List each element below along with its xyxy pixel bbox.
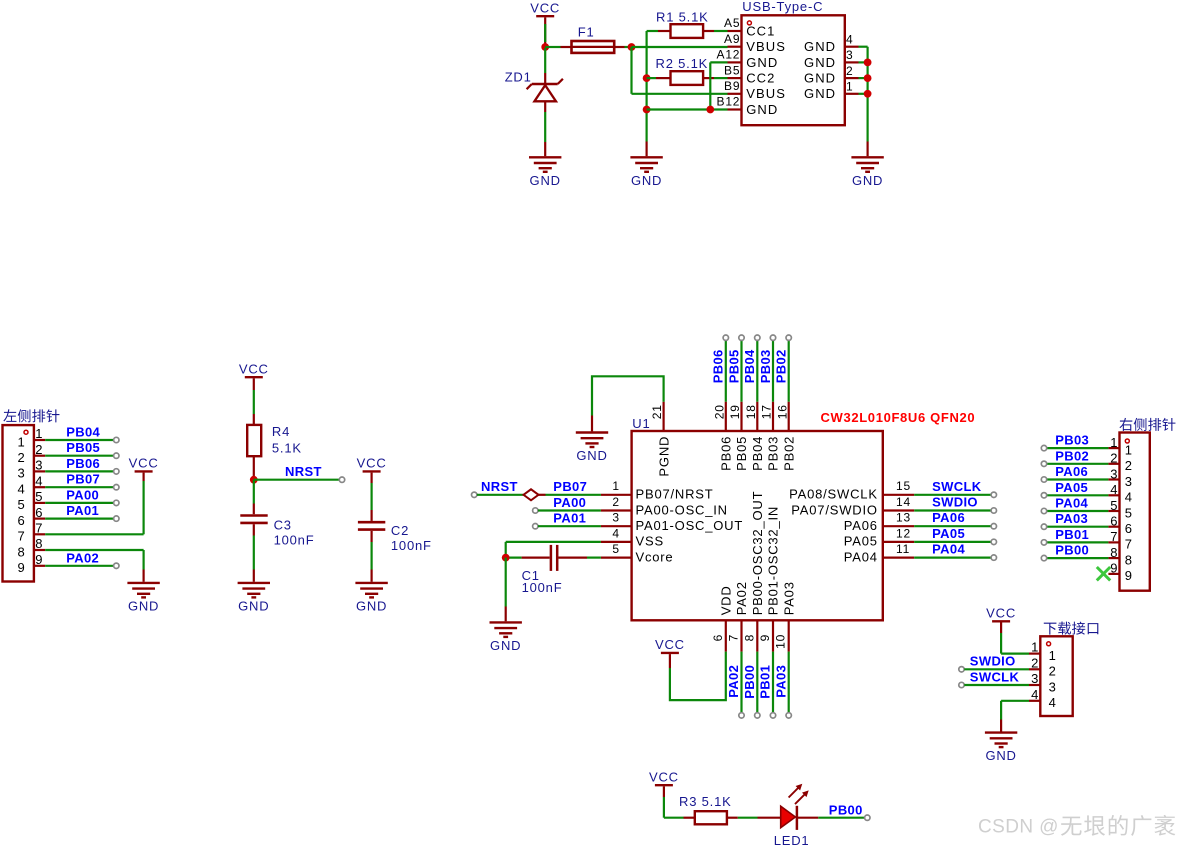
svg-text:3: 3 [1031,671,1039,686]
svg-text:21: 21 [650,404,664,419]
ground GND (PGND) [576,431,608,433]
svg-text:4: 4 [1110,482,1118,497]
power flag VCC (left header) [135,470,153,472]
svg-text:7: 7 [1125,537,1133,552]
U1 bottom pin 10 wire [788,620,790,651]
node R2 junction [643,74,651,82]
svg-text:7: 7 [1110,529,1118,544]
svg-text:PB00: PB00 [1055,543,1089,558]
power flag VCC (input protection) [536,15,554,17]
svg-text:SWCLK: SWCLK [970,669,1020,684]
svg-text:PA03: PA03 [1055,511,1088,526]
svg-text:11: 11 [896,542,910,556]
svg-text:GND: GND [804,71,836,86]
wire / net label PB07 [45,486,113,488]
wire / net label PA00 [533,508,538,513]
svg-text:GND: GND [804,55,836,70]
wire C1 node to GND [505,558,507,607]
wire pin8 to GND [45,549,143,551]
node VBUS junction [628,43,636,51]
svg-text:GND: GND [238,598,269,613]
U1 top pin 16 wire / net label PB02 [788,402,790,431]
wire zener branch [544,48,546,73]
wire / net label SWCLK (U1 right) [914,494,991,496]
download header pin1 indicator [1047,642,1051,646]
wire A12 to B12 (GND pins) [709,62,711,109]
svg-text:R4: R4 [272,424,290,439]
svg-text:2: 2 [1049,664,1057,679]
svg-text:GND: GND [852,173,883,188]
svg-text:GND: GND [804,39,836,54]
svg-text:PB03: PB03 [758,349,773,383]
svg-text:7: 7 [35,521,43,536]
svg-text:3: 3 [1110,466,1118,481]
svg-text:C2: C2 [391,523,409,538]
wire NRST node to C3 [253,480,255,504]
wire junction to fuse F1 [545,46,560,48]
svg-text:PB02: PB02 [1055,448,1089,463]
wire VCC to R4 [253,378,255,390]
svg-text:15: 15 [896,479,911,493]
svg-text:USB-Type-C: USB-Type-C [742,0,823,14]
pin 1 indicator [747,21,751,25]
svg-text:F1: F1 [578,24,595,39]
power flag VCC (VDD) [661,652,679,654]
wire / net label PB06 [45,470,113,472]
svg-text:1: 1 [1110,435,1118,450]
svg-text:1: 1 [1031,640,1039,655]
svg-text:Vcore: Vcore [636,549,674,564]
svg-text:20: 20 [712,404,726,419]
wire / net label PA05 (U1 right) [914,541,991,543]
node B12 junction right [706,106,714,114]
wire VSS down to C1 node [506,541,601,543]
USB right pin stubs and wires [845,46,859,48]
ground GND (C1) [490,621,522,623]
svg-text:100nF: 100nF [391,538,432,553]
wire F1 to VBUS junction [614,46,624,48]
svg-text:19: 19 [728,404,742,419]
svg-text:PB05: PB05 [66,440,100,455]
ground GND (left header) [127,582,159,584]
ground GND (C2) [355,582,387,584]
svg-text:2: 2 [17,450,25,465]
svg-text:LED1: LED1 [774,833,810,848]
svg-text:6: 6 [711,634,725,641]
USB left pin stubs A5 A9 A12 B5 B9 B12 [728,30,742,32]
svg-text:1: 1 [612,479,619,493]
svg-text:PB01: PB01 [758,665,773,699]
svg-text:GND: GND [804,86,836,101]
svg-text:4: 4 [1125,490,1133,505]
wire / net label PB01 (right header) [1047,541,1109,543]
svg-text:R3 5.1K: R3 5.1K [679,794,732,809]
wire download pin4 to GND [1001,700,1029,702]
svg-text:PA01: PA01 [553,511,586,526]
wire / net label PA04 (U1 right) [914,556,991,558]
wire / net label SWDIO (U1 right) [914,509,991,511]
wire / net label PB04 [45,439,113,441]
svg-text:B12: B12 [717,95,741,109]
svg-text:GND: GND [356,598,387,613]
svg-text:PB04: PB04 [66,425,100,440]
svg-text:GND: GND [490,638,521,653]
wire VBUS junction to pin A9 [632,46,728,48]
svg-text:PB06: PB06 [711,349,726,383]
svg-text:PB01-OSC32_IN: PB01-OSC32_IN [766,506,781,615]
svg-text:PA06: PA06 [844,518,878,533]
wire / net label PA06 (right header) [1047,478,1109,480]
svg-text:6: 6 [1125,521,1133,536]
svg-text:2: 2 [35,442,43,457]
svg-text:CSDN @: CSDN @ [978,817,1059,838]
node GND bus pin1 [864,90,872,98]
svg-text:PA03: PA03 [773,665,788,698]
U1 bottom pin 9 wire [772,620,774,651]
svg-text:GND: GND [128,598,159,613]
svg-text:6: 6 [35,505,43,520]
svg-text:5: 5 [35,489,43,504]
wire / net label PA06 (U1 right) [914,525,991,527]
svg-text:2: 2 [1110,451,1118,466]
svg-text:A9: A9 [724,32,740,46]
svg-text:4: 4 [612,526,619,540]
svg-text:4: 4 [1049,695,1057,710]
wire PGND pin21 to GND [662,402,664,431]
svg-text:9: 9 [17,560,25,575]
wire pin7 to VCC [45,533,143,535]
svg-text:NRST: NRST [285,464,322,479]
svg-text:PB07/NRST: PB07/NRST [636,487,714,502]
connector left header body [3,425,34,581]
svg-text:PB02: PB02 [781,436,796,471]
wire VDD to VCC [670,652,726,701]
svg-text:8: 8 [17,544,25,559]
resistor R2 [647,77,656,79]
svg-text:PA04: PA04 [844,549,878,564]
svg-text:2: 2 [612,495,619,509]
resistor R4 [247,425,261,456]
node VCC junction at F1/ZD1 [541,43,549,51]
svg-text:1: 1 [17,434,25,449]
svg-text:5: 5 [1125,505,1133,520]
svg-text:100nF: 100nF [522,580,563,595]
svg-text:PA02: PA02 [66,550,99,565]
ground GND (USB shell) [851,156,883,158]
svg-text:3: 3 [1049,679,1057,694]
svg-text:GND: GND [746,102,778,117]
svg-text:PB07: PB07 [66,472,100,487]
wire C3 to GND [253,524,255,535]
svg-text:PB05: PB05 [726,349,741,383]
wire / net label PB05 [45,455,113,457]
wire / net label NRST [254,479,339,481]
svg-text:8: 8 [1110,545,1118,560]
ground GND (under ZD1) [529,156,561,158]
svg-text:SWDIO: SWDIO [932,495,978,510]
svg-text:8: 8 [742,634,756,641]
svg-text:PA02: PA02 [726,665,741,698]
svg-text:PA05: PA05 [932,526,965,541]
svg-text:7: 7 [727,634,741,641]
capacitor C3 [240,514,267,517]
left header title (Chinese) [3,409,59,422]
wire / net label PB00 (LED) [797,817,818,819]
power flag VCC (C2) [363,470,381,472]
power flag VCC (LED) [655,784,673,786]
wire / net label PA01 [45,517,113,519]
wire VCC to C2 [371,473,373,483]
wire / net label PA05 (right header) [1047,494,1109,496]
wire / net label PB03 (right header) [1047,447,1109,449]
zener diode ZD1 [532,83,558,85]
svg-text:8: 8 [35,536,43,551]
node B12 junction left [643,106,651,114]
svg-text:PB06: PB06 [66,456,100,471]
svg-text:3: 3 [612,511,619,525]
resistor R1 [647,30,658,32]
svg-text:VSS: VSS [636,534,664,549]
svg-text:1: 1 [1125,442,1133,457]
no-connect X on right header pin 9 [1097,567,1110,580]
svg-text:PA06: PA06 [1055,464,1088,479]
svg-text:9: 9 [1110,561,1118,576]
node NRST junction [250,476,258,484]
power flag VCC (download) [992,620,1010,622]
svg-text:VCC: VCC [530,0,560,15]
svg-text:PA01: PA01 [66,503,99,518]
svg-text:C3: C3 [274,517,292,532]
svg-text:3: 3 [1125,474,1133,489]
svg-text:VBUS: VBUS [746,39,786,54]
svg-text:VCC: VCC [649,769,679,784]
connector right header body [1120,433,1150,591]
U1 bottom pin 6 wire [725,620,727,651]
svg-text:100nF: 100nF [274,533,315,548]
svg-text:VCC: VCC [357,456,387,471]
resistor R3 [695,811,727,824]
net flag NRST diamond [472,492,477,497]
svg-text:GND: GND [631,173,662,188]
svg-text:PA07/SWDIO: PA07/SWDIO [791,502,878,517]
wire / net label SWCLK (download) [959,682,964,687]
U1 bottom pin 8 wire [756,620,758,651]
wire / net label PB00 (right header) [1047,557,1109,559]
U1 bottom pin 7 wire [740,620,742,651]
wire right GND bus [866,47,868,142]
svg-text:4: 4 [846,32,853,46]
svg-text:PA04: PA04 [932,542,965,557]
right header pin stubs [1108,447,1119,449]
svg-text:PB06: PB06 [719,436,734,471]
svg-text:PB03: PB03 [766,436,781,471]
svg-text:10: 10 [774,634,788,649]
diode LED1 [781,806,796,828]
svg-text:PB00-OSC32_OUT: PB00-OSC32_OUT [750,491,765,616]
svg-text:3: 3 [17,466,25,481]
left header pin1 indicator [24,430,28,434]
svg-text:PB05: PB05 [734,436,749,471]
right header pin1 indicator [1125,439,1129,443]
svg-text:3: 3 [846,48,853,62]
U1 top pin 18 wire / net label PB04 [756,402,758,431]
wire / net label PB02 (right header) [1047,463,1109,465]
svg-text:6: 6 [1110,514,1118,529]
svg-text:2: 2 [1031,655,1039,670]
wire / net label PA04 (right header) [1047,510,1109,512]
svg-text:PA03: PA03 [781,581,796,615]
left header pin stubs [34,439,45,441]
U1 top pin 19 wire / net label PB05 [740,402,742,431]
svg-text:PB03: PB03 [1055,433,1089,448]
right header title (Chinese) [1119,418,1175,431]
svg-text:14: 14 [896,495,911,509]
ground GND (CC rail) [630,156,662,158]
svg-text:CW32L010F8U6 QFN20: CW32L010F8U6 QFN20 [821,410,976,425]
svg-text:5: 5 [1110,498,1118,513]
wire / net label PA02 [45,565,113,567]
svg-text:13: 13 [896,511,911,525]
svg-text:1: 1 [1049,648,1057,663]
svg-text:7: 7 [17,529,25,544]
U1 top pin 17 wire / net label PB03 [772,402,774,431]
connector USB-Type-C body [742,15,845,125]
svg-text:CC2: CC2 [746,71,775,86]
svg-text:PA01-OSC_OUT: PA01-OSC_OUT [636,518,744,533]
svg-text:A5: A5 [724,16,740,30]
svg-text:4: 4 [17,482,25,497]
svg-text:GND: GND [576,448,607,463]
wire VCC to junction [544,17,546,47]
power flag VCC (R4) [245,376,263,378]
svg-text:1: 1 [35,426,43,441]
connector download header body [1040,636,1072,716]
fuse F1 [572,41,615,53]
node C1/VSS junction [502,554,510,562]
ground GND (C3) [238,582,270,584]
svg-text:2: 2 [846,64,853,78]
svg-text:PA04: PA04 [1055,496,1088,511]
capacitor C2 [358,521,385,524]
svg-text:PB04: PB04 [742,349,757,383]
svg-text:VDD: VDD [719,585,734,615]
wire / net label PA00 [45,502,113,504]
svg-text:PB02: PB02 [774,349,789,383]
svg-text:9: 9 [1125,568,1133,583]
svg-text:VBUS: VBUS [746,86,786,101]
svg-text:3: 3 [35,458,43,473]
svg-text:4: 4 [1031,687,1039,702]
svg-text:18: 18 [744,404,758,419]
svg-text:A12: A12 [717,48,741,62]
svg-text:B9: B9 [724,79,740,93]
svg-text:PA08/SWCLK: PA08/SWCLK [789,487,878,502]
svg-text:8: 8 [1125,552,1133,567]
svg-text:PA00: PA00 [66,487,99,502]
svg-text:16: 16 [775,404,789,419]
svg-text:R2 5.1K: R2 5.1K [656,56,709,71]
U1 right pin stubs [883,494,914,496]
svg-text:PB04: PB04 [750,436,765,471]
svg-text:2: 2 [1125,458,1133,473]
svg-text:CC1: CC1 [746,23,775,38]
svg-text:PA02: PA02 [734,581,749,615]
svg-text:9: 9 [758,634,772,641]
svg-text:5: 5 [612,542,619,556]
node GND bus pin3 [864,59,872,67]
wire / net label PA03 (right header) [1047,526,1109,528]
svg-text:VCC: VCC [986,606,1016,621]
svg-text:PB00: PB00 [742,665,757,699]
node GND bus pin2 [864,74,872,82]
svg-text:PB01: PB01 [1055,527,1089,542]
svg-text:PA05: PA05 [1055,480,1088,495]
svg-text:6: 6 [17,513,25,528]
U1 left pin stubs [601,494,632,496]
wire B12 row [647,108,711,110]
svg-text:VCC: VCC [655,637,685,652]
svg-text:12: 12 [896,526,911,540]
svg-text:NRST: NRST [481,479,518,494]
svg-text:GND: GND [985,748,1016,763]
svg-text:PA05: PA05 [844,534,878,549]
svg-text:SWDIO: SWDIO [970,654,1016,669]
svg-text:PB07: PB07 [553,479,587,494]
capacitor C1 [506,556,522,558]
svg-text:GND: GND [746,55,778,70]
svg-text:PB00: PB00 [829,802,863,817]
wire CC rail vertical (R1/R2/GND) [645,31,647,142]
svg-text:PA06: PA06 [932,510,965,525]
svg-text:PA00-OSC_IN: PA00-OSC_IN [636,502,728,517]
svg-text:1: 1 [846,80,853,94]
svg-text:9: 9 [35,552,43,567]
wire R4 to NRST node [253,456,255,480]
svg-text:ZD1: ZD1 [505,69,532,84]
wire R3 to LED1 [727,817,738,819]
wire ZD1 to GND [544,101,546,112]
wire / net label SWDIO (download) [959,667,964,672]
ground GND (download) [985,731,1017,733]
svg-text:VCC: VCC [239,361,269,376]
svg-text:U1: U1 [632,416,650,431]
U1 top pin 20 wire / net label PB06 [725,402,727,431]
wire C2 to GND [371,531,373,542]
IC U1 CW32L010F8U6 QFN20 body [632,431,883,620]
wire VBUS junction down to pin B9 row [630,47,632,94]
svg-text:5.1K: 5.1K [272,440,302,455]
svg-text:VCC: VCC [129,456,159,471]
svg-text:PA00: PA00 [553,495,586,510]
wire VCC to download pin1 [1000,623,1002,634]
download header pin stubs [1029,652,1040,654]
wire / net label PA01 [533,524,538,529]
svg-text:5: 5 [17,497,25,512]
wire VCC to R3 [663,786,665,797]
svg-text:PGND: PGND [656,436,671,477]
svg-text:GND: GND [530,173,561,188]
svg-text:17: 17 [760,404,774,419]
svg-text:SWCLK: SWCLK [932,479,982,494]
svg-text:R1 5.1K: R1 5.1K [656,10,709,25]
svg-text:4: 4 [35,473,43,488]
download header title (Chinese) [1044,622,1099,635]
svg-text:B5: B5 [724,63,740,77]
